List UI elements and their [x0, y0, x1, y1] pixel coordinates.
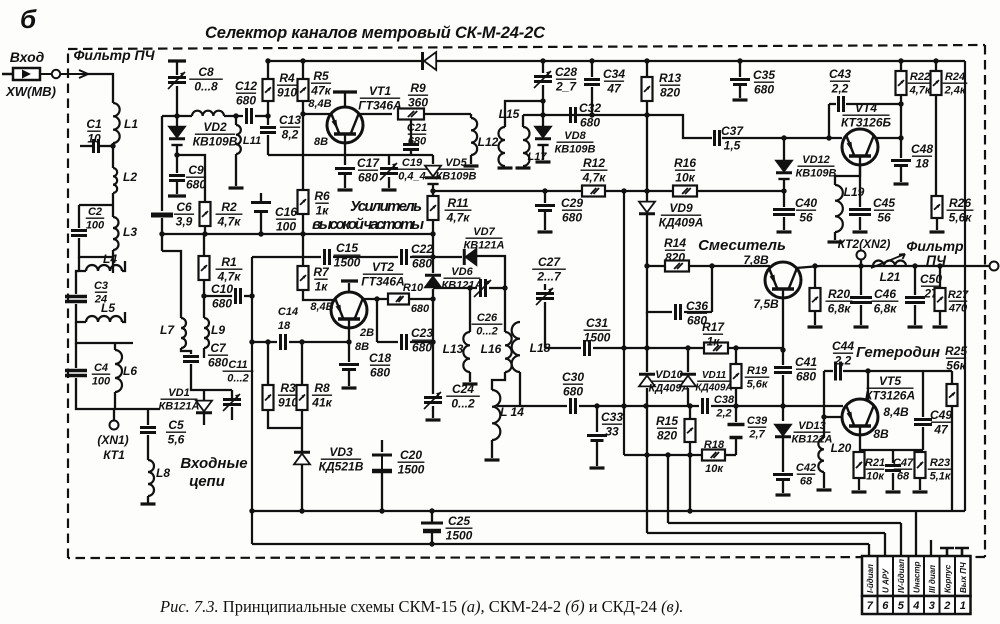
svg-text:высокой частоты: высокой частоты: [312, 216, 424, 233]
wire row 288: [433, 287, 477, 289]
label C43: [829, 67, 851, 96]
svg-text:47: 47: [606, 82, 622, 96]
svg-text:L16: L16: [481, 342, 502, 356]
label C1 value: [86, 117, 102, 146]
svg-text:41к: 41к: [311, 396, 332, 410]
wire: [739, 86, 741, 98]
wire: [860, 305, 862, 325]
svg-text:ХW(МВ): ХW(МВ): [5, 84, 56, 99]
wire: [646, 215, 648, 266]
diode VD5: [425, 166, 441, 184]
svg-text:680: 680: [236, 94, 256, 108]
capacitor C2: [71, 231, 87, 236]
svg-text:680: 680: [186, 178, 206, 192]
label C11: [223, 359, 254, 385]
wire: [424, 113, 471, 115]
junction: [265, 58, 270, 63]
label VD9: [659, 201, 704, 230]
ground: [382, 188, 397, 191]
label R7: [313, 265, 330, 294]
junction: [430, 231, 435, 236]
wire: [76, 378, 160, 409]
resistor R16: [673, 186, 697, 197]
junction: [249, 508, 254, 513]
label C34: [603, 67, 625, 96]
svg-text:3,9: 3,9: [176, 215, 193, 229]
wire: [203, 390, 205, 400]
wire: [432, 220, 434, 234]
junction: [937, 263, 942, 268]
wire: [203, 280, 205, 296]
svg-text:С8: С8: [198, 65, 214, 79]
junction: [430, 296, 435, 301]
wire C49 column: [922, 371, 924, 417]
svg-text:L15: L15: [499, 107, 520, 121]
capacitor C14: [281, 334, 286, 350]
junction: [733, 345, 738, 350]
label C13: [279, 113, 301, 142]
ground: [852, 490, 867, 493]
svg-text:КВ121А: КВ121А: [463, 240, 504, 252]
junction: [737, 58, 742, 63]
label C33: [601, 410, 623, 439]
wire: [203, 296, 205, 318]
junction: [201, 293, 206, 298]
wire: [235, 116, 237, 125]
wire row 342: [252, 341, 277, 343]
svg-text:VD10: VD10: [655, 369, 683, 381]
junction: [346, 339, 351, 344]
wire: [302, 61, 304, 79]
wire: [684, 311, 712, 313]
wire: [147, 435, 149, 460]
junction: [733, 403, 738, 408]
diode VD12: [776, 161, 792, 179]
svg-text:8,2: 8,2: [282, 128, 299, 142]
transistor VT4: [842, 129, 878, 165]
svg-text:С31: С31: [586, 316, 608, 330]
wire: [203, 414, 205, 425]
svg-text:56: 56: [877, 211, 891, 225]
label C30: [562, 370, 584, 399]
svg-text:1500: 1500: [446, 529, 473, 543]
inductor L20: [818, 438, 824, 472]
junction: [933, 58, 938, 63]
svg-text:R14: R14: [664, 236, 686, 250]
svg-text:КВ121А: КВ121А: [158, 401, 199, 413]
svg-text:С6: С6: [176, 200, 192, 214]
svg-text:R10: R10: [403, 282, 424, 294]
svg-text:U АРУ: U АРУ: [881, 568, 890, 593]
label VD2: [193, 120, 238, 149]
capacitor C34: [584, 80, 600, 85]
svg-text:680: 680: [796, 370, 816, 384]
svg-text:5,6к: 5,6к: [949, 211, 973, 225]
pin 1 stub: [955, 548, 969, 556]
label C45: [873, 196, 895, 225]
label R27: [948, 289, 969, 315]
wire bus 533: [647, 532, 885, 534]
junction: [174, 152, 179, 157]
wire: [301, 428, 303, 451]
diode VD3: [294, 452, 310, 464]
svg-text:III диап: III диап: [928, 565, 937, 593]
svg-text:33: 33: [605, 425, 619, 439]
wire: [892, 450, 894, 463]
svg-text:6: 6: [882, 600, 889, 612]
wire: [689, 455, 691, 511]
wire: [86, 74, 113, 103]
svg-text:2,7: 2,7: [748, 429, 765, 441]
svg-text:б: б: [20, 4, 37, 34]
svg-text:С38: С38: [714, 394, 735, 406]
diode VD4: [423, 52, 437, 70]
svg-text:ГТ346А: ГТ346А: [361, 275, 404, 289]
junction: [540, 98, 545, 103]
wire: [596, 442, 598, 466]
svg-text:С45: С45: [873, 196, 895, 210]
label R11: [445, 196, 472, 225]
resistor R8: [297, 385, 308, 410]
wire: [542, 145, 544, 160]
svg-text:56к: 56к: [946, 359, 966, 373]
svg-text:R27: R27: [948, 289, 969, 301]
wire: [900, 95, 902, 138]
svg-text:820: 820: [657, 429, 677, 443]
wire osc top: [824, 370, 833, 372]
svg-text:С48: С48: [911, 142, 933, 156]
wire: [112, 193, 114, 217]
svg-text:L13: L13: [443, 342, 464, 356]
wire: [231, 407, 233, 420]
ground: [894, 182, 909, 185]
label C21: [407, 122, 427, 148]
capacitor C48: [891, 161, 911, 166]
svg-text:10: 10: [87, 132, 101, 146]
svg-text:680: 680: [563, 385, 583, 399]
junction: [379, 508, 384, 513]
wire: [204, 226, 206, 234]
svg-text:Фильтр ПЧ: Фильтр ПЧ: [73, 47, 155, 63]
inductor L13: [463, 332, 470, 372]
label C7 value: [208, 341, 228, 370]
capacitor C17: [335, 169, 355, 174]
ground: [777, 230, 792, 233]
diode VD8: [535, 127, 551, 145]
svg-text:VD3: VD3: [329, 445, 353, 459]
wire: [114, 392, 116, 409]
junction: [300, 231, 305, 236]
wire: [687, 388, 689, 406]
label C29: [561, 196, 583, 225]
label C24: [446, 382, 480, 411]
junction: [709, 263, 714, 268]
resistor R1: [199, 256, 210, 280]
capacitor C36: [676, 304, 681, 320]
wire: [892, 473, 894, 490]
capacitor C23: [402, 334, 407, 350]
wire C21 bottom: [410, 151, 412, 155]
resistor R27: [935, 288, 946, 311]
junction: [781, 188, 786, 193]
resistor R15: [685, 419, 696, 442]
label R16: [674, 156, 696, 185]
svg-text:100: 100: [86, 220, 105, 232]
junction: [685, 345, 690, 350]
capacitor C40: [773, 210, 795, 215]
wire: [919, 478, 921, 490]
wire C9 stub: [176, 155, 178, 173]
diode VD7: [464, 249, 476, 265]
label C22: [411, 242, 433, 271]
ground: [464, 164, 479, 167]
wire VD10 column down: [646, 388, 648, 533]
label C37: [721, 124, 744, 153]
wire C16 stub: [260, 193, 262, 202]
wire C39 top: [735, 406, 737, 422]
junction: [202, 231, 207, 236]
wire bus 523: [668, 522, 901, 524]
wire: [301, 342, 303, 385]
svg-text:КВ109В: КВ109В: [795, 168, 836, 180]
transistor VT2: [331, 292, 367, 328]
label R12: [581, 156, 608, 185]
ground: [854, 325, 869, 328]
svg-text:КД409А: КД409А: [659, 216, 704, 230]
svg-text:Входные: Входные: [180, 455, 247, 472]
svg-text:С29: С29: [561, 196, 583, 210]
wire: [181, 348, 191, 354]
svg-text:1500: 1500: [584, 331, 611, 345]
junction: [374, 296, 379, 301]
capacitor C38: [703, 398, 708, 414]
svg-text:L19: L19: [844, 185, 865, 199]
svg-text:С41: С41: [795, 355, 817, 369]
wire bus 406: [497, 405, 567, 407]
wire: [231, 390, 233, 398]
label C10 value: [211, 282, 233, 311]
trimmer capacitor C28: [534, 71, 552, 88]
junction: [781, 135, 786, 140]
junction: [643, 403, 648, 408]
junction: [898, 135, 903, 140]
label VD7: [463, 226, 504, 252]
diode VD9: [639, 202, 655, 214]
diode VD11: [680, 374, 696, 386]
svg-text:2,2: 2,2: [715, 408, 731, 420]
wire: [646, 61, 648, 77]
svg-text:0...2: 0...2: [227, 373, 248, 385]
wire bus 191: [433, 190, 784, 192]
label R1 value: [216, 255, 243, 284]
ground: [817, 488, 832, 491]
wire: [783, 217, 785, 230]
ground: [229, 186, 244, 189]
ground: [485, 458, 500, 461]
label C19: [397, 157, 428, 183]
svg-text:0,4_4: 0,4_4: [398, 171, 426, 183]
label R8: [311, 381, 332, 410]
trimmer capacitor C19: [380, 163, 398, 180]
wire bottom bus 511: [252, 510, 965, 512]
capacitor C1: [94, 139, 99, 153]
wire to L7: [162, 251, 181, 318]
junction: [249, 293, 254, 298]
wire: [75, 343, 77, 368]
label C36: [686, 299, 708, 328]
svg-text:R17: R17: [702, 320, 725, 334]
wire: [814, 266, 816, 288]
capacitor C32: [571, 107, 576, 123]
label C40: [795, 196, 817, 225]
wire C27 top: [544, 284, 546, 290]
svg-text:5,1к: 5,1к: [930, 471, 952, 483]
diode VD6: [425, 275, 441, 287]
capacitor C16: [251, 203, 271, 212]
capacitor C9: [169, 176, 185, 181]
svg-text:680: 680: [358, 171, 378, 185]
test point KT1 (XN1): [110, 421, 119, 430]
svg-text:R8: R8: [314, 381, 330, 395]
label VD1: [158, 387, 199, 413]
wire: [596, 406, 598, 432]
resistor R18: [702, 450, 725, 461]
svg-text:L8: L8: [156, 466, 170, 480]
svg-text:R18: R18: [704, 439, 725, 451]
junction: [780, 403, 785, 408]
label C25: [446, 514, 473, 543]
wire to L15: [505, 101, 543, 127]
svg-text:С40: С40: [795, 196, 817, 210]
label C8: [189, 65, 223, 94]
svg-text:R11: R11: [447, 196, 468, 210]
junction: [249, 339, 254, 344]
svg-text:Корпус: Корпус: [943, 564, 952, 593]
wire: [782, 406, 784, 421]
label R19: [745, 365, 770, 391]
svg-text:L6: L6: [123, 364, 137, 378]
junction: [644, 112, 649, 117]
svg-text:С16: С16: [275, 205, 297, 219]
wire row 266: [647, 265, 665, 267]
svg-text:Селектор каналов метровый С: Селектор каналов метровый СК-М-24-2С: [205, 24, 546, 42]
wire: [79, 204, 113, 206]
label VD12: [795, 154, 836, 180]
label R17: [702, 320, 725, 349]
svg-text:8В: 8В: [873, 427, 889, 441]
wire: [689, 442, 691, 455]
svg-text:С39: С39: [747, 415, 768, 427]
wire: [489, 287, 505, 289]
label VT2: [361, 260, 404, 289]
capacitor C29: [535, 206, 555, 211]
svg-text:1к: 1к: [315, 280, 329, 294]
label C16: [275, 205, 297, 234]
svg-text:2,2: 2,2: [831, 82, 849, 96]
wire: [147, 409, 149, 425]
junction: [430, 339, 435, 344]
svg-text:10к: 10к: [675, 171, 695, 185]
resistor R17: [704, 343, 728, 354]
connector pin circle: [52, 70, 60, 78]
label R5: [310, 69, 331, 98]
inductor L5: [86, 316, 122, 322]
svg-text:8,4В: 8,4В: [308, 98, 331, 110]
svg-text:47: 47: [933, 423, 949, 437]
svg-text:Смеситель: Смеситель: [698, 237, 786, 254]
label C12: [235, 79, 257, 108]
svg-text:R24: R24: [945, 71, 965, 83]
wire to C37: [647, 115, 712, 138]
wire: [687, 348, 689, 372]
junction: [589, 112, 594, 117]
wire VT4 emitter tap: [859, 165, 861, 207]
svg-text:18: 18: [915, 157, 929, 171]
junction: [665, 452, 670, 457]
wire: [204, 295, 232, 297]
svg-text:R5: R5: [313, 69, 329, 83]
svg-text:С20: С20: [400, 448, 422, 462]
capacitor C25: [421, 522, 443, 525]
wire: [544, 212, 546, 230]
svg-text:С9: С9: [188, 163, 204, 177]
svg-text:5: 5: [898, 600, 905, 612]
label VD11: [695, 370, 732, 394]
svg-text:С46: С46: [874, 287, 896, 301]
capacitor C10: [236, 288, 241, 304]
svg-text:I-йдиап: I-йдиап: [866, 564, 875, 593]
svg-text:С44: С44: [832, 339, 854, 353]
wire row 257: [252, 256, 321, 258]
wire: [735, 388, 737, 406]
svg-text:С11: С11: [228, 359, 247, 371]
junction: [110, 143, 115, 148]
wire VT2 top stub: [348, 283, 350, 292]
ground: [590, 466, 605, 469]
wire: [114, 343, 116, 350]
svg-text:4: 4: [912, 600, 919, 612]
label C27: [532, 255, 566, 284]
inductor L17: [523, 127, 530, 166]
junction: [912, 263, 917, 268]
capacitor C12: [247, 108, 252, 124]
svg-text:2: 2: [943, 600, 950, 612]
label R25: [945, 344, 967, 373]
svg-text:R1: R1: [221, 255, 237, 269]
svg-text:R12: R12: [583, 156, 605, 170]
label R14: [664, 236, 686, 265]
wire: [914, 305, 916, 325]
junction: [174, 113, 179, 118]
wire VD6-C24 column: [432, 289, 434, 394]
wire: [542, 85, 544, 126]
svg-text:R13: R13: [659, 71, 681, 85]
resistor R5: [298, 79, 309, 101]
label R21: [865, 457, 885, 483]
feedthrough bar above VT2: [341, 279, 358, 282]
junction: [644, 452, 649, 457]
wire: [122, 261, 125, 271]
wire: [469, 372, 471, 382]
resistor R14: [665, 261, 689, 272]
capacitor C22: [402, 249, 407, 265]
ground: [933, 325, 948, 328]
ground: [828, 240, 843, 243]
junction: [265, 113, 270, 118]
junction: [621, 345, 626, 350]
junction: [644, 58, 649, 63]
capacitor C41: [774, 368, 792, 373]
